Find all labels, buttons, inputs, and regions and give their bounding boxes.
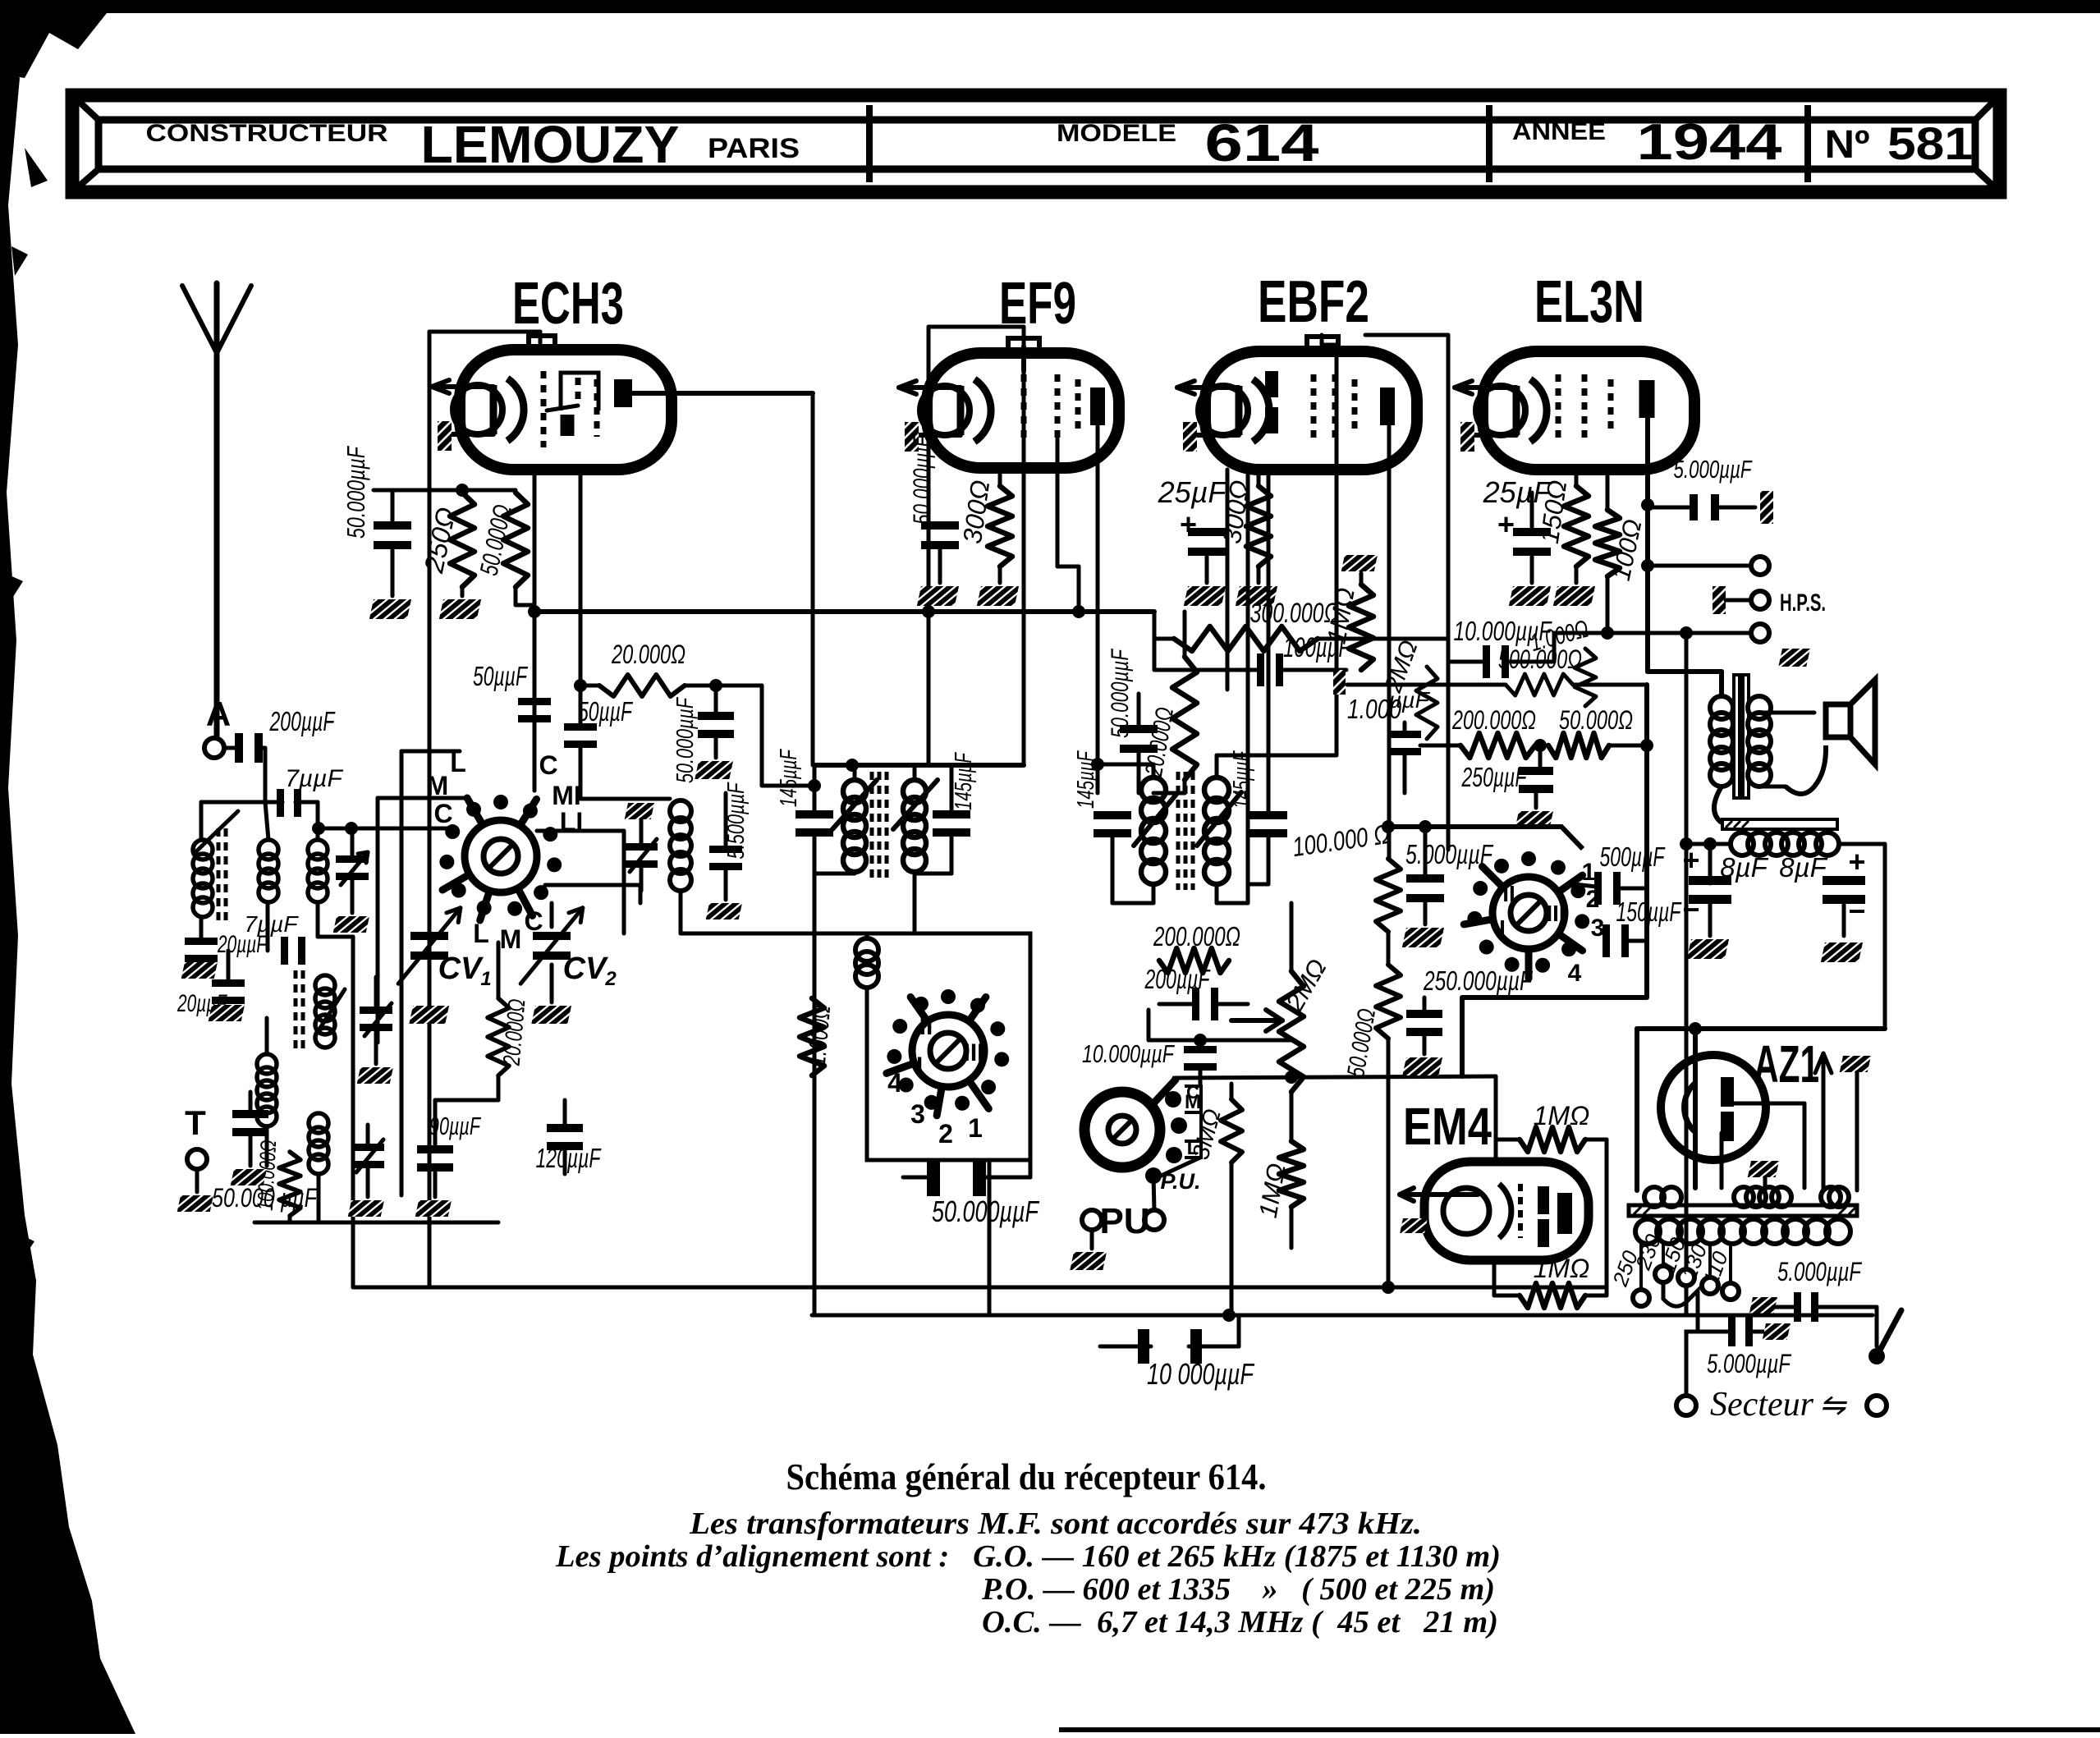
svg-text:MI: MI [552,781,581,810]
wire EF9 anode down [1096,426,1100,793]
wire ECH3 cathode down [533,470,537,605]
svg-text:1: 1 [1582,859,1596,886]
capacitor 50.000uuF EF9 screen [974,468,976,517]
svg-text:50.000µµF: 50.000µµF [672,696,699,783]
wire W3 down [305,950,318,952]
trimmer CV2 [533,932,571,960]
svg-text:581: 581 [1887,117,1973,169]
title block divider 2 [1486,105,1492,182]
svg-text:200.000Ω: 200.000Ω [1153,921,1240,952]
wire ECH3 frame left vertical [428,332,432,1287]
tube ECH3 envelope [460,350,672,470]
tube EL3N grids [1556,374,1561,438]
svg-text:5.000µµF: 5.000µµF [1777,1257,1863,1286]
svg-text:EM4: EM4 [1403,1097,1492,1156]
svg-text:M: M [500,924,522,954]
wire ECH3 anode to right [632,391,813,396]
trimmer 2 [374,977,378,1008]
coil L6 [309,1113,328,1133]
svg-text:H.P.S.: H.P.S. [1780,589,1826,617]
terminal out2 [1751,624,1769,642]
svg-text:500.000Ω: 500.000Ω [1498,644,1582,674]
MF1 primary coil [843,780,866,803]
capacitor 10.000uuF bottom [1138,1329,1202,1364]
tube EF9 envelope [927,353,1119,468]
trimmer ant [351,828,355,857]
wire EM4 grid [1494,1076,1498,1140]
capacitor 200uuF antenna [235,733,263,763]
AZ1 filament wire [1693,1029,1698,1188]
output transformer primary [1710,696,1733,719]
svg-text:3: 3 [910,1099,925,1129]
wire EBF2 verticals [1226,470,1230,690]
svg-text:145µµF: 145µµF [776,748,802,807]
svg-text:10.000µµF: 10.000µµF [1082,1039,1176,1068]
AZ1 frame [1635,1029,1639,1190]
tube EF9 anode [1090,387,1105,425]
AZ1 arrow [1822,1053,1826,1190]
speaker [1826,704,1850,737]
oscillator coil [855,938,878,961]
mains switch [1875,1307,1879,1346]
svg-text:III: III [963,1039,984,1066]
capacitor 50.000uuF osc [927,1158,986,1196]
capacitor 120uuF [547,1124,583,1150]
wire EF9 frame [928,325,1024,329]
band switch 1 [465,820,537,892]
wire EF9 g2 [1056,438,1060,566]
svg-text:L: L [473,919,489,948]
scan border left edge [0,49,135,1734]
svg-text:−: − [1848,894,1865,928]
svg-text:Secteur: Secteur [1710,1386,1814,1424]
capacitor 7uuF [277,789,301,817]
terminal secteur left [1676,1396,1696,1415]
coil L3 [308,840,328,860]
tone switch [1492,877,1565,949]
svg-text:250.000µµF: 250.000µµF [1423,965,1533,996]
tube ECH3 triode anode [561,415,575,436]
power transformer core [1629,1205,1857,1216]
svg-text:5.500µµF: 5.500µµF [723,782,750,860]
coil antenna L1 [193,840,213,860]
MF1 top wire [814,763,1024,768]
wire osc to bus [1029,1160,1031,1177]
svg-text:MODÈLE: MODÈLE [1057,119,1176,147]
capacitor 20uuF 1 [199,917,204,941]
svg-text:50.000µµF: 50.000µµF [909,435,936,525]
svg-text:1: 1 [968,1113,983,1143]
svg-text:50.000µµF: 50.000µµF [932,1195,1039,1228]
tube EBF2 anode [1380,387,1395,425]
svg-text:50.000 µµF: 50.000 µµF [212,1183,319,1213]
wire pot wiper to EM4 grid [1174,1076,1496,1078]
AZ1 anode wire [1729,1102,1804,1106]
svg-text:120µµF: 120µµF [536,1143,602,1173]
output transformer core [1734,675,1740,798]
tube EL3N envelope [1483,351,1694,470]
MF2 trimmer arrows [1134,792,1178,846]
tube EBF2 diode plates [1265,371,1278,397]
svg-text:5.000µµF: 5.000µµF [1707,1349,1792,1378]
bottom bus 1 [353,1286,1607,1290]
svg-text:50.000µµF: 50.000µµF [342,445,370,539]
capacitor 5.000uuF af top lead [1424,827,1428,854]
wire antenna cap node down [264,748,268,802]
wires EL3N couplings [1551,662,1552,695]
wire ECH3 triode grid down [579,470,583,726]
MF2 secondary coil [1204,777,1229,802]
coil L2 [259,840,278,860]
svg-text:I: I [916,1052,923,1080]
svg-text:8µF: 8µF [1779,852,1827,883]
svg-text:CV: CV [438,952,484,986]
capacitor 145uuF MF1 sec [950,765,954,814]
MF1 secondary coil [903,780,926,803]
svg-text:3: 3 [1591,915,1605,942]
svg-text:PARIS: PARIS [708,133,800,164]
svg-text:T: T [185,1103,206,1142]
svg-text:2: 2 [604,968,617,990]
PU pot contacts [1165,1091,1181,1107]
left block bottom wire [254,1221,498,1225]
capacitor 50.000uuF anode decoupling [374,521,411,549]
title block divider 1 [866,105,873,182]
svg-text:II: II [919,1013,933,1040]
svg-text:Nº: Nº [1825,123,1870,167]
svg-text:+: + [1682,843,1699,877]
svg-text:50µµF: 50µµF [473,661,528,691]
wire B decoupling [374,488,516,493]
svg-text:145µµF: 145µµF [1229,750,1255,809]
tube EF9 top cap [1008,338,1039,350]
svg-text:1: 1 [480,968,491,990]
svg-text:200.000Ω: 200.000Ω [1451,705,1536,735]
svg-text:⇋: ⇋ [1819,1388,1847,1423]
wire ECH3 anode vertical [811,393,815,765]
wire screen resistor to switch [516,603,534,608]
svg-text:1MΩ: 1MΩ [1534,1101,1590,1130]
svg-text:7µµF: 7µµF [245,911,300,937]
wire EBF2 frame [1365,333,1448,337]
tube ECH3 top cap [529,336,555,346]
power transformer primary coils [1644,1187,1664,1207]
svg-text:20.000Ω: 20.000Ω [611,640,685,669]
transformer taps [1633,1290,1649,1306]
tube EF9 grids [1021,346,1026,371]
svg-text:90µµF: 90µµF [429,1112,481,1140]
oscillator frame [867,933,1030,1160]
terminal secteur right [1867,1396,1887,1415]
tube EL3N anode [1639,380,1655,418]
MF1 core [870,772,874,880]
svg-text:614: 614 [1205,113,1320,172]
svg-text:LEMOUZY: LEMOUZY [421,115,680,174]
band switch 2 [912,1015,984,1087]
svg-text:CONSTRUCTEUR: CONSTRUCTEUR [146,120,388,147]
svg-text:200µµF: 200µµF [1144,964,1211,994]
MF2 connections [1098,777,1153,793]
wire EL3N anode down [1645,418,1650,672]
coil L4 iron core [315,975,335,995]
svg-text:CV: CV [563,952,608,986]
output transformer secondary [1748,696,1771,719]
capacitor 50uuF osc [564,723,597,748]
volume pot arrow [1231,1018,1282,1023]
svg-text:500µµF: 500µµF [1600,841,1666,872]
MF2 primary coil [1141,777,1166,802]
svg-text:ECH3: ECH3 [512,271,624,337]
svg-text:Les transformateurs M.F. sont: Les transformateurs M.F. sont accordés s… [689,1506,1422,1541]
svg-text:250µµF: 250µµF [1461,762,1528,792]
coil L5 [257,1054,277,1074]
svg-text:Schéma général du récepteur 61: Schéma général du récepteur 614. [786,1456,1267,1497]
svg-text:P.O. — 600 et 1335 » ( 50: P.O. — 600 et 1335 » ( 500 et 225 m) [981,1572,1495,1607]
svg-text:8µF: 8µF [1720,852,1768,883]
wire coil1 drop [199,802,204,840]
svg-text:1944: 1944 [1637,114,1783,171]
capacitor 50.000uuF EF9 anode [1120,725,1158,753]
svg-text:III: III [1546,901,1565,926]
antenna [214,283,220,737]
svg-text:A: A [206,695,231,733]
tube AZ1 plates [1721,1077,1734,1107]
MF1 connections [853,765,857,780]
svg-text:C: C [1186,1082,1199,1103]
trimmer CV1 [410,932,448,960]
wire pu frame [1147,1010,1151,1040]
wire W1b to switch [319,827,447,831]
capacitor 145uuF MF2 [1094,811,1131,837]
svg-text:50.000µµF: 50.000µµF [1107,649,1134,738]
title block divider 3 [1804,105,1811,182]
capacitor 20uuF 2 [227,951,231,982]
svg-text:200µµF: 200µµF [269,706,336,736]
svg-text:145µµF: 145µµF [951,751,977,810]
svg-text:PU: PU [1099,1201,1149,1241]
terminal out1 [1751,557,1769,575]
tone block frame [1390,827,1583,849]
filter choke [1731,832,1754,855]
tube EM4 target [1518,1184,1523,1238]
bottom bus 2 [812,1314,1873,1318]
svg-text:50µµF: 50µµF [578,696,633,727]
tube ECH3 grids [541,371,547,447]
output transformer ground [1778,649,1810,667]
svg-text:50.000Ω: 50.000Ω [1559,705,1633,735]
svg-text:7µµF: 7µµF [285,765,343,792]
wire hps vertical [1685,633,1689,1315]
wire b+ line [534,609,1154,614]
svg-text:II: II [1502,881,1515,906]
svg-text:2: 2 [938,1119,953,1149]
MF1 trimmer arrows [832,780,877,829]
core L1 [217,828,221,924]
oscillator trimmer [625,803,654,819]
svg-text:+: + [1848,845,1865,878]
svg-text:C: C [524,906,543,936]
svg-text:C: C [539,750,557,780]
capacitor 50uuF ECH3 cathode [518,698,551,722]
svg-text:EBF2: EBF2 [1258,269,1369,335]
capacitor 50.000uuF osc to ground [714,686,718,715]
scan speck top left [25,148,48,187]
tube EM4 envelope [1424,1162,1589,1260]
wire right collector vertical [1644,685,1649,997]
tube ECH3 hexode anode [614,379,632,407]
svg-text:150µµF: 150µµF [1616,897,1682,927]
MF1 left vertical [813,765,817,814]
tube EBF2 envelope [1205,351,1417,470]
wire EBF2 anode down [1387,426,1392,859]
svg-text:Les points d’alignement sont :: Les points d’alignement sont : G.O. — 16… [555,1539,1501,1574]
tube EBF2 top cap [1307,337,1338,348]
power transformer secondary [1635,1219,1660,1244]
svg-text:−: − [1682,892,1699,926]
svg-text:P.U.: P.U. [1160,1169,1200,1194]
svg-text:I: I [1499,915,1506,941]
wire top cap EF9 to MF1 [1022,345,1026,765]
capacitor 50.000uuF tuner [232,1110,268,1136]
capacitor 145uuF MF1 grid [796,810,833,837]
output transformer [1648,669,1722,674]
mains tap wire [1663,1282,1698,1397]
svg-text:O.C. — 6,7 et 14,3 MHz ( 45: O.C. — 6,7 et 14,3 MHz ( 45 et 21 m) [982,1605,1498,1639]
resistor 500.000 ohm [1333,670,1346,695]
AZ1 arrow ground [1840,1056,1871,1072]
scan border top band [0,0,2100,78]
svg-text:25µF: 25µF [1158,475,1228,509]
wire W1 [201,800,282,805]
wire ECH3 frame top [429,330,540,334]
MF2 core [1176,772,1181,890]
trimmer 3 [351,1144,384,1168]
wire osc mid vertical [988,1160,992,1315]
capacitor 7uuF 2 [281,937,305,965]
svg-text:EL3N: EL3N [1534,269,1644,335]
svg-text:C: C [433,799,452,828]
oscillator coil block [580,797,670,801]
svg-text:1MΩ: 1MΩ [1534,1254,1590,1283]
PU pot wiper arm [1153,1080,1176,1104]
title block frame [72,95,2000,192]
filter choke core [1722,819,1837,829]
capacitor 145uuF MF2 right [1249,811,1287,837]
svg-text:5.000µµF: 5.000µµF [1674,455,1753,484]
svg-text:4: 4 [887,1068,902,1098]
wires switch to coils [378,796,465,800]
wire to MF1 top [760,686,764,786]
svg-text:ANNÉE: ANNÉE [1512,117,1606,145]
switch box verticals [376,798,380,1043]
svg-text:10 000µµF: 10 000µµF [1147,1357,1254,1391]
capacitor 5.500uuF [724,793,728,848]
scan border bottom right line [1059,1727,2100,1732]
tube AZ1 envelope [1661,1055,1766,1160]
svg-text:4: 4 [1568,960,1582,987]
AZ1 center ground [1748,1161,1779,1177]
PU potentiometer [1084,1092,1160,1167]
svg-text:+: + [1497,507,1515,541]
tube EBF2 grids [1311,374,1317,438]
transformer primary bottom wire [1721,786,1722,844]
capacitor 90uuF [417,1145,453,1172]
